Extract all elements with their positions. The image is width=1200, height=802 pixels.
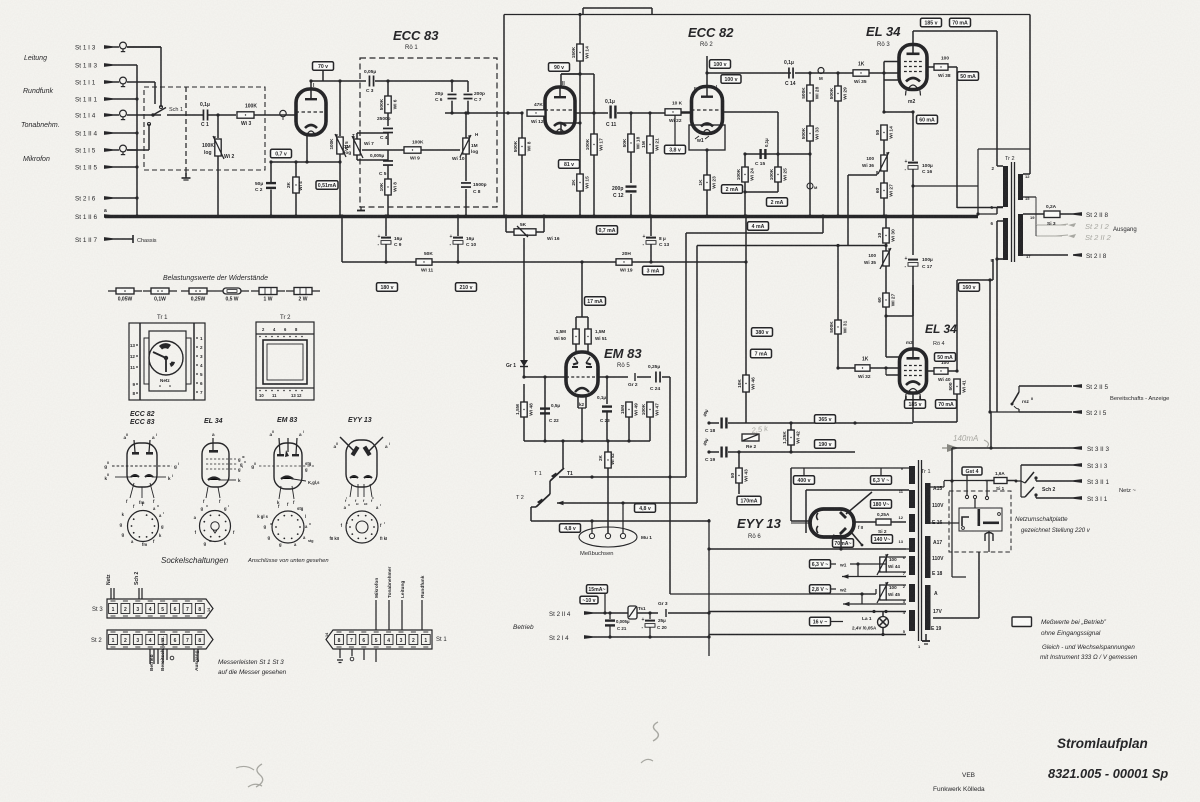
screen resistor Wi38 100 (927, 66, 934, 68)
Tr2 aux tap wires grey (1035, 197, 1037, 225)
socket bottom view ECC (128, 511, 159, 542)
terminal St 3 I 3 (1021, 464, 1073, 466)
label box 2,8V~ w2 (810, 585, 831, 594)
resistor Wi3 100K (237, 112, 254, 118)
resistor Wi52 2K (607, 441, 609, 452)
label box 6,3V~ top (871, 476, 892, 485)
label box 4,8v left (560, 524, 581, 533)
feedback line to 140mA (990, 412, 992, 448)
tube ECC83 system I (Ro1) (296, 89, 326, 135)
socket bottom view EL34 (200, 511, 231, 542)
Tr2 core lines (1011, 162, 1013, 262)
Tr1 secondary winding bars left (909, 466, 915, 484)
resistor Wi41 500 (954, 379, 960, 394)
wire anode V1 to coupling C3 (311, 80, 366, 82)
input terminal St 1 II 5 (75, 165, 113, 172)
label box 140V~ (872, 535, 893, 544)
terminal St 2 II 8 (1073, 212, 1082, 216)
capacitor C5 0,005u (383, 160, 393, 162)
resistor Wi48 1,5M (523, 384, 525, 402)
resistor Wi24 100K (744, 154, 746, 167)
resistor Wi25 100K (777, 112, 779, 167)
input terminal St 1 I 3 (75, 42, 161, 52)
input terminal St 1 I 5 (75, 145, 137, 155)
resistor Wi22 10K (665, 109, 681, 115)
feedback line L2 y245.5 (697, 245, 886, 247)
label box 190 v (815, 440, 836, 449)
diagram Tr1 right pins 1-7 (196, 337, 198, 339)
pencil squiggle bottom middle (653, 722, 658, 741)
rectifier Gr1 (523, 360, 525, 377)
diagram Tr1 rotary switch (149, 341, 183, 375)
terminal St 3 I 1 (1035, 495, 1037, 498)
label box 185 v top (921, 18, 942, 27)
label box Gst4 (962, 467, 982, 475)
heater row arrow y576 (842, 574, 849, 578)
anode load Wi17 100K (561, 73, 594, 75)
netz plate internals (965, 495, 968, 498)
label box 20mA~ (833, 539, 854, 548)
switch Sch2 (1016, 480, 1021, 482)
EL34b bottom loop (905, 396, 907, 400)
pot Wi45 100 (880, 585, 886, 600)
wire input I3 to switch x161 (127, 46, 161, 48)
potentiometer Wi2 100K log (217, 115, 219, 138)
cathode bypass chain x913 with C16 (912, 112, 914, 161)
cathode pot Wi36 100 (881, 155, 887, 171)
socket bottom view EYY13 (346, 511, 378, 543)
label box 70mA b (936, 400, 957, 409)
capacitor C23 0,1u (606, 377, 608, 404)
switch rsz (1012, 392, 1019, 404)
wire input II bus vertical x137 (113, 64, 137, 66)
tube EL34 Ro3 (899, 45, 927, 90)
EYY13 top rail y468 (791, 467, 909, 469)
capacitor C3 0,05u (369, 76, 371, 87)
capacitor C21 0,005u (609, 613, 611, 619)
rail2 y31 EL34 screen (913, 30, 997, 32)
filter cap C10 16u (457, 216, 459, 236)
grid resistor Wi12 47K (527, 110, 545, 116)
B+ top rail (504, 14, 1030, 16)
label box 185v b (905, 400, 926, 409)
fuse Si2 0,25A (854, 521, 874, 523)
label box 380 v (752, 328, 773, 337)
legend resistor 0,1W (143, 288, 177, 303)
terminal St 3 II 1 (1035, 478, 1037, 481)
wire Wi3 to V1 grid (254, 114, 296, 116)
wire input I1 drop (137, 81, 155, 83)
legend measurement box (1012, 617, 1032, 627)
second rail y262 (342, 261, 416, 263)
cap C17 100u (912, 216, 914, 255)
Messbuchsen jacks (579, 527, 637, 547)
capacitor C7 200p (457, 80, 468, 82)
label box 180 v (377, 283, 398, 292)
filter cap C9 16u (385, 216, 387, 236)
resistor Wi46 10K lower (743, 375, 749, 392)
grey 140mA annotation (947, 444, 959, 452)
Tr2 pin9 stub (997, 258, 1003, 260)
Tr1 left wires to EYY rails (906, 548, 909, 550)
Tr2 secondary bars (1018, 174, 1023, 200)
switch Sch1 (151, 113, 154, 116)
label box 7 mA (751, 349, 772, 358)
measure point M (795, 72, 854, 74)
terminal St 3 II 3 (951, 448, 953, 481)
EYY cathode down to ground row (840, 537, 842, 549)
wire C3 to node, top wire in box (375, 80, 457, 82)
cathode follower chain 81v + Wi15 2K (578, 121, 581, 124)
heater row arrow y604 (843, 602, 850, 606)
capacitor C24 0,25u (655, 372, 657, 383)
cathode network V1: 0,7v box (306, 135, 308, 162)
Tr1 ground symbol (925, 634, 927, 641)
resistor Wi50 1,5M (573, 329, 579, 344)
strip St1 leads below (339, 649, 341, 658)
coupling cap C14 0,1u (788, 68, 790, 79)
wire ECC82 second grid y112 (723, 111, 778, 113)
secondary top rail y8 jumper (583, 7, 652, 9)
tube ECC82 (Ro2) (692, 87, 723, 134)
label box 15v~ lamp (810, 617, 831, 626)
capacitor C11 0,1u coupling (576, 112, 608, 114)
label box 400 v (794, 476, 815, 485)
plate feed x997 from Tr2 pin6 (912, 285, 914, 349)
ground at box corner (360, 207, 362, 210)
screen resistor Wi40 100 (926, 370, 934, 372)
input terminal St 1 II 4 (75, 131, 113, 138)
connector strip St 1 (326, 630, 432, 649)
screen feed EL34b from Tr2 pin9 (992, 259, 994, 280)
ECC83 stage dashed box (360, 58, 497, 207)
diagram Tr1 left pins (136, 344, 138, 346)
bus to Tr2 wiring (976, 212, 979, 215)
EYY13 mid rail y490 (806, 489, 909, 491)
cathode resistor Wi23 1K (706, 150, 708, 175)
EM83 feed 17mA (581, 262, 583, 317)
wire C4 Wi7 net (387, 138, 389, 145)
ground below selector box (185, 170, 187, 176)
label box 4,8v right (635, 504, 656, 513)
filter cap C13 8u (650, 216, 652, 236)
tube EYY13 Ro6 (810, 509, 854, 537)
pot Wi35b 100 (883, 251, 889, 266)
label box 70 v anode V1 (310, 81, 312, 89)
terminal St 2 II 5 (1019, 385, 1072, 387)
label box 170mA (737, 496, 761, 505)
pencil mark left (236, 766, 254, 770)
label box 3 mA (643, 266, 664, 275)
EL34 cathode network Wi14 (882, 110, 885, 113)
label box 210 v (456, 283, 477, 292)
legend resistor 2 W (286, 288, 320, 303)
feedback line L1 y233 (686, 232, 823, 234)
diode Gr3 (0, 0, 1, 1)
filter cap C18 40u (707, 421, 710, 424)
socket bottom view EM83 (272, 511, 304, 543)
socket side view ECC (127, 443, 157, 487)
pot Wi44 100 (880, 557, 886, 572)
tube EM83 Ro5 (566, 352, 598, 396)
resistor Wi33 500K (807, 126, 813, 141)
Tr1 primary bars right (925, 483, 931, 524)
fuse Si1 1,6A (994, 478, 1007, 484)
wire C1 to Wi3 (208, 114, 236, 116)
Tr1 core lines (918, 460, 920, 641)
tube ECC83 system II (Ro1b) (545, 87, 575, 133)
resistor Wi51 1,5M (585, 329, 591, 344)
row y477 to bundle (559, 476, 686, 478)
ground bus wire (105, 215, 978, 218)
strip St2 leads below (149, 649, 151, 664)
switch lever below EYY (851, 532, 862, 545)
label box 15mA (587, 585, 608, 594)
diagram Tr2 outer box (256, 322, 314, 400)
resistor Wi49 15M (626, 402, 632, 417)
resistor Wi43 50 (738, 452, 740, 468)
grid stopper Wi32 1K (855, 365, 870, 371)
grid leak Wi8b 500K (521, 113, 523, 138)
EL34b cathode chain Wi30 (883, 228, 889, 243)
cathode resistor Wi4 2K (295, 162, 297, 177)
label box 3,8 v (674, 113, 676, 145)
netz dashed box (949, 491, 1011, 552)
Tr2 primary winding bars (1003, 166, 1008, 207)
strip St1 leads above (375, 600, 377, 630)
selector dashed box (144, 87, 265, 170)
resistor Wi11 50K (416, 259, 432, 265)
resistor Wi21 1M (649, 113, 651, 136)
label box 50mA b (935, 353, 956, 362)
wire Tr1 A15 to fuse (930, 486, 944, 488)
long vertical x746 HT (745, 216, 747, 375)
hum pot Wi16 5K (505, 216, 507, 232)
anode network system II 150K Wi14 (579, 14, 581, 44)
relay Re2 (742, 434, 759, 441)
diagram Tr1 inner box (149, 331, 186, 391)
resistor Wi8 10K (387, 172, 389, 179)
legend resistor 0,25W (181, 288, 215, 303)
cathode cap C2 50u (270, 162, 272, 182)
anode wire and 100v boxes (706, 56, 708, 87)
capacitor C6 20p (451, 81, 453, 92)
wire C18 rail y423 to 365v (738, 422, 913, 424)
T2 to heater row (531, 506, 536, 508)
capacitor C1 0,1u (203, 110, 205, 121)
measure circle below Wi33 (807, 183, 813, 189)
socket side view EYY13 (346, 440, 377, 487)
resistor Wi42 1,25K (790, 423, 792, 430)
filter cap C19 40u (707, 450, 710, 453)
label box 0,7mA (597, 226, 618, 235)
wire mid node y113 (445, 112, 522, 114)
socket side view EM83 (274, 443, 302, 489)
grid chain 500K Wi31 (837, 246, 839, 321)
label box 50mA right (958, 72, 979, 81)
resistor Wi29 500K (837, 73, 839, 86)
input terminal St 2 I 6 (75, 196, 113, 203)
capacitor C20 25u (649, 613, 651, 619)
Tr2 pin6 line down to rsz (996, 221, 998, 412)
relay contact Ts1 (628, 606, 637, 619)
label box 6,3V~ w1 (810, 560, 831, 569)
diode Gr2 (0, 0, 1, 1)
row y634 to pin5 (709, 634, 906, 636)
terminal St 2 I 8 (1073, 253, 1082, 257)
legend resistor 1 W (251, 288, 285, 303)
label box 70 mA top (950, 18, 971, 27)
grid row y377 EM83 (524, 376, 566, 378)
diagram Tr2 inner square (263, 340, 307, 384)
wire y192 and 2mA box (745, 191, 778, 193)
pilot lamp La1 (882, 612, 884, 618)
choke Wi19 20H (616, 259, 632, 265)
resistor Wi28 500K (809, 73, 811, 85)
cathode wiper tap to L1 loop (848, 174, 877, 176)
long row y594 (670, 593, 876, 595)
label box 4mA (748, 222, 769, 231)
capacitor C4 2500p (383, 128, 393, 130)
input terminal St 1 II 1 (75, 97, 113, 104)
legend resistor 0,5 W (215, 288, 249, 303)
input terminal St 1 I 4 (75, 110, 161, 120)
cathode resistor Wi27a 60 (881, 183, 887, 198)
fuse Si3 0,2A (1044, 211, 1060, 218)
resistor Wi47 100K (647, 402, 653, 417)
terminal St 2 I 5 (1018, 409, 1020, 412)
cathode EM83 to row (577, 402, 579, 408)
C15 row y154 (745, 153, 810, 155)
wire C19 rail y452 (738, 451, 855, 453)
label box 0,51mA (316, 181, 338, 190)
label box 90 v (549, 63, 570, 72)
pilot lamp row to pin4 (709, 611, 906, 613)
EYY13 anode to 180V box diagonal (846, 492, 872, 514)
EM83 bottom row y441 (524, 440, 650, 442)
cathode box ECC82 (689, 125, 725, 150)
capacitor C22 0,5u (540, 407, 550, 409)
label box 2mA (722, 185, 743, 194)
legend resistor 0,05W (108, 288, 142, 303)
socket side view EL34 (202, 443, 229, 487)
grid stopper Wi35a 1K (853, 70, 869, 76)
wire input I5 drop (127, 149, 149, 151)
grid network Wi18 50K (617, 112, 692, 114)
resistor Wi6 500K (387, 81, 389, 96)
tube EL34 Ro4 (900, 349, 927, 393)
label box 365 v (815, 415, 836, 424)
diagram Tr1 outer box (129, 323, 205, 400)
rail y262 to x746 (651, 261, 746, 263)
selector inner dashed divider (185, 87, 187, 170)
ground row y549 (709, 548, 906, 550)
strip St3 leads Netz Sch2 (110, 588, 112, 599)
resistor Wi9 100K (362, 149, 404, 151)
input terminal St 1 I 1 (75, 77, 137, 87)
input terminal St 1 II 3 (75, 63, 113, 70)
feedback pot Wi5 100K (339, 81, 341, 136)
capacitor C8 1500p (465, 154, 467, 181)
capacitor C12 200p (630, 152, 632, 183)
heater arrow row y503 (557, 501, 564, 505)
resistor Wi27b 60 (883, 293, 889, 307)
Tr1 shield ground loop (933, 617, 979, 619)
